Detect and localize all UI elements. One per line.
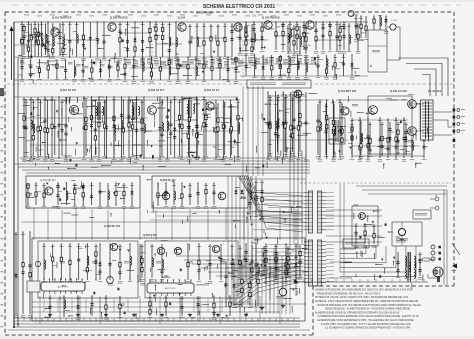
resistor R107	[237, 115, 239, 122]
node	[65, 59, 66, 60]
value label	[286, 247, 290, 250]
capacitor C134	[48, 304, 51, 310]
value label	[116, 62, 121, 64]
value label	[43, 55, 48, 58]
value label	[316, 56, 320, 59]
capacitor C124	[274, 265, 277, 271]
value label	[43, 159, 48, 161]
wire IC drop	[179, 298, 181, 312]
value label	[278, 56, 282, 59]
capacitor C129	[274, 259, 277, 265]
node	[31, 54, 32, 55]
node	[203, 79, 204, 80]
resistor R23	[224, 37, 226, 44]
wire	[58, 97, 60, 158]
transistor Q9	[206, 102, 214, 110]
capacitor C110	[212, 190, 215, 196]
value label	[354, 39, 359, 41]
wire	[297, 37, 301, 39]
wire	[315, 22, 317, 50]
resistor R28	[235, 57, 237, 64]
resistor R166	[241, 287, 243, 294]
wire	[285, 244, 287, 280]
wire	[396, 26, 400, 28]
wire	[143, 97, 145, 158]
wire	[69, 109, 78, 111]
value label	[21, 315, 26, 317]
value label	[134, 158, 139, 161]
driver transformer T401 core	[335, 120, 337, 142]
resistor R54	[56, 63, 58, 70]
wire	[155, 22, 157, 57]
value label	[264, 281, 269, 283]
value label	[304, 27, 308, 30]
value label	[195, 158, 200, 161]
node	[217, 103, 218, 104]
wire	[395, 118, 397, 158]
wire	[200, 52, 204, 54]
wire	[379, 16, 381, 30]
transistor Q12	[369, 106, 378, 115]
wire	[285, 112, 289, 114]
wire	[47, 100, 49, 155]
value label	[176, 58, 180, 61]
capacitor C82	[169, 131, 172, 137]
value label	[123, 58, 127, 61]
node	[167, 157, 168, 158]
wire	[408, 130, 424, 132]
value label	[204, 184, 208, 187]
wire	[163, 42, 168, 44]
wire inter-section drop	[33, 208, 35, 240]
wire	[117, 60, 119, 78]
wire	[390, 131, 394, 133]
node	[326, 99, 327, 100]
node	[213, 182, 214, 183]
node	[225, 261, 226, 262]
node	[177, 56, 178, 57]
resistor R9	[149, 28, 151, 35]
value label	[335, 50, 340, 53]
wire	[282, 92, 284, 158]
node	[66, 182, 67, 183]
value label	[260, 50, 265, 53]
value label	[252, 23, 256, 26]
diode blobs group	[93, 249, 295, 317]
wire	[109, 244, 111, 280]
resistor R1	[21, 39, 23, 46]
node	[395, 157, 396, 158]
transistor Q18	[110, 243, 117, 250]
node	[280, 75, 281, 76]
connector strip J2 upper	[317, 191, 326, 233]
wire	[104, 100, 106, 155]
capacitor C90	[350, 134, 353, 140]
node	[397, 275, 398, 276]
box section label	[247, 80, 311, 88]
value label	[112, 159, 117, 161]
inductor L33	[114, 125, 116, 134]
capacitor C75	[53, 124, 56, 130]
transistor Q307	[107, 277, 114, 284]
node	[195, 56, 196, 57]
node	[142, 21, 143, 22]
value label	[223, 105, 227, 108]
wire	[74, 183, 76, 205]
node	[351, 54, 352, 55]
wire	[38, 149, 43, 151]
value label	[378, 159, 383, 161]
value label	[295, 51, 300, 53]
capacitor C23	[281, 23, 284, 29]
resistor R101	[178, 114, 180, 121]
wire	[292, 249, 296, 251]
inductor L22	[46, 34, 48, 43]
wire diagonal bundle upper	[238, 176, 303, 232]
wire	[37, 97, 39, 158]
node	[219, 56, 220, 57]
transistor Q5	[264, 21, 272, 29]
wire	[306, 44, 311, 46]
inductor L38	[412, 142, 414, 151]
node	[303, 21, 304, 22]
value label	[38, 155, 43, 158]
value label	[216, 58, 221, 60]
wire	[239, 24, 241, 52]
node	[255, 243, 256, 244]
wire	[286, 108, 290, 110]
value label	[202, 159, 207, 161]
value label	[28, 315, 33, 317]
diode D21	[244, 257, 247, 263]
value label	[128, 14, 133, 17]
node	[49, 315, 50, 316]
wire	[106, 97, 108, 158]
resistor R128	[115, 191, 117, 198]
wire	[448, 126, 452, 128]
value label	[270, 56, 274, 59]
wire	[325, 104, 327, 155]
node	[284, 97, 285, 98]
value label	[262, 59, 267, 64]
value label	[296, 93, 300, 96]
wire	[282, 276, 284, 288]
value label	[141, 58, 145, 61]
node	[230, 99, 231, 100]
transistor Q8	[148, 106, 157, 115]
value label	[95, 58, 100, 60]
wire L-route group	[398, 58, 448, 96]
resistor R135	[52, 256, 54, 263]
wire	[121, 97, 123, 158]
wire	[69, 244, 71, 280]
resistor R68	[51, 123, 53, 130]
capacitor C116	[118, 270, 121, 276]
value label	[230, 25, 234, 28]
value label	[338, 25, 342, 28]
value label	[262, 247, 266, 250]
wire	[187, 100, 189, 155]
wire	[173, 183, 175, 205]
value label	[116, 61, 120, 64]
speaker terminal	[453, 123, 456, 126]
value label	[236, 101, 240, 104]
resistor R60	[37, 31, 39, 38]
value label	[81, 58, 86, 60]
resistor R25	[203, 63, 205, 69]
value label	[50, 14, 55, 17]
wire bus rail 5	[26, 172, 310, 174]
wire	[24, 117, 148, 119]
wire channel vertical	[289, 252, 291, 314]
resistor R165	[241, 278, 243, 285]
value label	[358, 159, 363, 161]
capacitor C98	[266, 121, 269, 127]
wire	[165, 296, 167, 316]
wire	[387, 59, 400, 61]
node	[115, 204, 116, 205]
node	[355, 15, 356, 16]
value label	[133, 60, 138, 66]
resistor R78	[222, 123, 224, 129]
frame left border	[4, 12, 6, 335]
wire	[18, 74, 22, 76]
inductor L20	[380, 17, 382, 26]
value label	[31, 101, 35, 104]
resistor R80	[269, 123, 271, 130]
capacitor C92	[380, 144, 383, 150]
wire	[253, 22, 255, 50]
diode D2	[133, 37, 136, 43]
value label	[402, 119, 406, 122]
wire	[246, 63, 306, 65]
wire	[142, 57, 144, 80]
resistor R83	[332, 129, 334, 136]
resistor R76	[203, 122, 205, 129]
capacitor C108	[188, 193, 191, 199]
value label	[62, 297, 66, 300]
node	[33, 99, 34, 100]
value label	[290, 57, 295, 62]
wire	[384, 148, 388, 150]
driver transformer T401 secondary	[340, 127, 342, 136]
wire	[231, 244, 233, 280]
wire interconnect	[63, 39, 100, 41]
wire	[203, 97, 205, 158]
value label	[59, 245, 63, 248]
node	[357, 49, 358, 50]
capacitor C109	[196, 190, 199, 196]
value label	[297, 15, 302, 18]
node	[275, 91, 276, 92]
diode D7	[250, 37, 253, 43]
resistor R19	[162, 27, 164, 34]
value label	[232, 263, 236, 266]
value label	[228, 297, 232, 300]
wire	[178, 198, 182, 200]
capacitor C45	[44, 45, 47, 51]
wire	[196, 97, 198, 158]
capacitor C30	[335, 34, 338, 40]
box S145 enclosure	[368, 30, 387, 72]
wire	[73, 60, 75, 78]
inductor L9	[197, 37, 199, 46]
value label	[68, 281, 73, 283]
value label	[188, 25, 192, 28]
value label	[248, 263, 252, 266]
node	[106, 157, 107, 158]
wire	[373, 224, 375, 244]
capacitor C16	[168, 48, 171, 54]
node	[245, 21, 246, 22]
wire	[231, 146, 235, 148]
wire	[65, 60, 67, 78]
resistor R5	[82, 34, 84, 41]
wire	[245, 244, 247, 280]
capacitor C58	[158, 125, 161, 131]
node	[379, 117, 380, 118]
wire right feed	[368, 193, 447, 195]
wire vertical bus 2	[247, 86, 249, 176]
value label	[20, 62, 25, 64]
node	[151, 56, 152, 57]
resistor R16	[155, 34, 157, 41]
value label	[378, 119, 382, 122]
value label	[141, 80, 146, 83]
node	[267, 157, 268, 158]
wire drop	[159, 296, 161, 324]
node	[175, 21, 176, 22]
resistor R138	[86, 267, 88, 274]
value label	[208, 245, 212, 248]
node	[136, 157, 137, 158]
node	[215, 157, 216, 158]
resistor R119	[397, 129, 399, 136]
node	[265, 243, 266, 244]
node	[83, 204, 84, 205]
wire channel vertical	[285, 248, 287, 314]
resistor R30	[261, 26, 263, 32]
svg-text:GAMMA DI RICEZIONE: AM ONDE ME: GAMMA DI RICEZIONE: AM ONDE MEDIE 525-16…	[315, 289, 413, 292]
wire	[181, 296, 183, 316]
wire	[206, 260, 210, 262]
resistor R146	[285, 270, 287, 277]
node	[373, 15, 374, 16]
node	[241, 261, 242, 262]
wire drop	[119, 296, 121, 318]
node	[254, 75, 255, 76]
wire	[30, 60, 32, 78]
capacitor C19	[230, 28, 233, 34]
node	[341, 103, 342, 104]
value label	[284, 96, 288, 99]
wire	[178, 65, 183, 67]
inductor L17	[327, 59, 329, 68]
node	[357, 23, 358, 24]
value label	[292, 55, 297, 57]
node	[21, 59, 22, 60]
ground	[188, 313, 192, 317]
value label	[122, 184, 126, 187]
wire	[364, 224, 366, 244]
value label	[232, 14, 237, 17]
wire	[90, 130, 238, 132]
node	[175, 56, 176, 57]
wire	[317, 104, 319, 155]
wire	[53, 265, 57, 267]
wire inter-section drop	[225, 208, 227, 240]
node	[299, 245, 300, 246]
wire tick	[319, 279, 321, 282]
wire tick	[423, 279, 425, 282]
inductor L63	[409, 263, 411, 272]
wire	[124, 186, 128, 188]
value label	[37, 15, 42, 18]
value label	[418, 253, 422, 256]
node	[132, 154, 133, 155]
section separator dashed line	[7, 83, 453, 85]
value label	[175, 60, 180, 66]
node	[27, 204, 28, 205]
wire	[246, 67, 251, 69]
value label	[104, 317, 109, 319]
resistor R116	[360, 143, 362, 150]
value label	[226, 80, 231, 83]
wire	[329, 22, 331, 50]
resistor R48	[305, 36, 307, 43]
wire	[217, 24, 219, 57]
wire	[94, 100, 96, 155]
capacitor C139	[354, 230, 357, 236]
value label	[354, 245, 359, 247]
value label	[172, 206, 177, 208]
inductor L53	[87, 256, 89, 265]
wire	[277, 95, 279, 155]
wire	[296, 55, 298, 76]
wire staircase cascade	[340, 246, 416, 277]
IC module AUTOVOX A	[41, 282, 85, 291]
IF transformer T202 secondary	[138, 107, 140, 116]
wire	[132, 100, 134, 155]
wire interconnect	[22, 35, 50, 37]
node	[38, 54, 39, 55]
resistor R2	[27, 46, 29, 53]
resistor R38	[279, 56, 281, 63]
capacitor C53	[90, 123, 93, 129]
node	[63, 295, 64, 296]
node box	[370, 65, 371, 66]
value label	[250, 53, 255, 55]
capacitor C120	[230, 261, 233, 267]
value label	[140, 101, 144, 104]
wire clutter group	[26, 97, 234, 171]
node	[269, 154, 270, 155]
node	[99, 243, 100, 244]
wire	[237, 100, 239, 158]
value label	[43, 98, 47, 101]
wire inter-section drop	[123, 208, 125, 240]
resistor R111	[299, 113, 301, 120]
value label	[121, 156, 126, 158]
value label	[314, 51, 319, 53]
wire	[269, 272, 271, 300]
node	[203, 56, 204, 57]
value label	[264, 245, 268, 248]
value label	[286, 27, 290, 30]
value label	[295, 77, 300, 79]
value label	[63, 78, 68, 81]
wire	[305, 55, 307, 76]
